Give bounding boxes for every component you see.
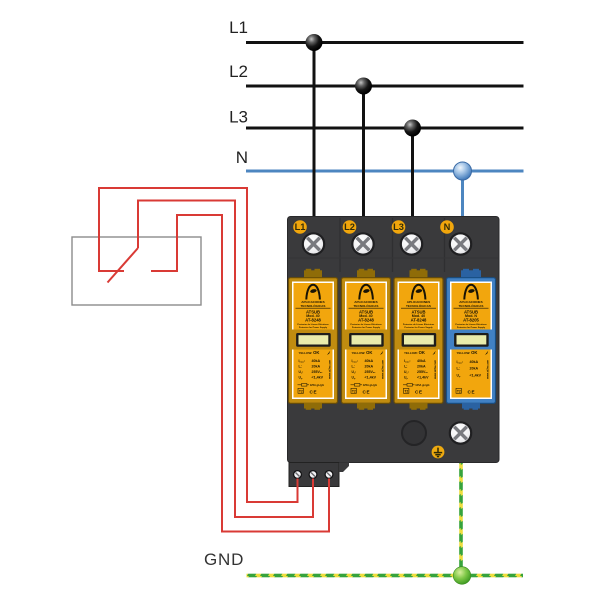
svg-text:20kA: 20kA <box>470 366 479 370</box>
svg-text:In:: In: <box>457 366 460 371</box>
terminal screw RC3 <box>325 471 333 479</box>
svg-text:L3: L3 <box>393 222 404 232</box>
badge L2 <box>343 220 357 234</box>
remote contact enclosure box <box>72 237 201 305</box>
terminal screw PE <box>450 422 471 443</box>
junction L3 <box>404 120 421 137</box>
wire L2 drop <box>362 86 365 220</box>
wire L1 bus <box>246 41 524 44</box>
earth badge <box>432 446 445 459</box>
svg-text:Protector de Líneas Eléctricas: Protector de Líneas Eléctricas <box>455 323 487 326</box>
maker logo arch <box>464 285 478 300</box>
svg-text:GND: GND <box>204 550 244 569</box>
terminal screw L3 <box>401 233 422 254</box>
switch blade <box>108 248 139 283</box>
svg-text:L1: L1 <box>295 222 306 232</box>
terminal block (remote contact) <box>289 463 349 487</box>
junction N <box>454 162 472 180</box>
svg-text:Protector for Power Supply: Protector for Power Supply <box>457 326 486 329</box>
wire L2 bus <box>246 85 524 88</box>
module top latch <box>461 270 481 278</box>
terminal screw N <box>450 233 471 254</box>
module front label <box>450 282 492 400</box>
terminal screw L1 <box>303 233 324 254</box>
svg-text:www.at3w.com: www.at3w.com <box>485 359 489 380</box>
terminal screw RC2 <box>309 471 317 479</box>
wire L3 drop <box>411 128 414 220</box>
svg-text:L2: L2 <box>229 62 248 81</box>
wire remote contact B (to RC2) <box>138 201 313 518</box>
terminal screw L2 <box>352 233 373 254</box>
earth wire vertical <box>459 462 463 577</box>
badge N <box>440 220 454 234</box>
SPD module 3 L3 AT-8248 <box>394 269 443 410</box>
svg-text:L2: L2 <box>344 222 355 232</box>
earth wire horizontal <box>247 574 524 578</box>
wire L3 bus <box>246 127 524 130</box>
wire N drop <box>461 171 464 220</box>
module cartridge body (N, blue) <box>447 278 496 404</box>
wire remote contact C (to RC3) <box>151 215 329 532</box>
svg-text:YELLOW: OK: YELLOW: OK <box>457 350 478 355</box>
svg-text:T2: T2 <box>457 390 461 394</box>
svg-text:CE: CE <box>468 389 475 394</box>
svg-text:N: N <box>236 148 248 167</box>
wire N bus <box>246 170 524 173</box>
svg-text:L3: L3 <box>229 108 248 127</box>
SPD module 1 L1 AT-8248 <box>289 269 338 410</box>
terminal screw RC1 <box>294 471 302 479</box>
svg-text:N: N <box>444 222 451 232</box>
svg-text:<1,4kV: <1,4kV <box>470 373 482 377</box>
earth node ball <box>453 567 471 585</box>
mounting hole <box>402 421 426 445</box>
junction L1 <box>306 34 323 51</box>
svg-text:40kA: 40kA <box>470 360 479 364</box>
wire L1 drop <box>313 43 316 221</box>
SPD device body <box>288 217 500 463</box>
module bottom latch <box>462 403 480 409</box>
badge L1 <box>293 220 307 234</box>
SPD module 2 L2 AT-8248 <box>342 269 391 410</box>
SPD module 4 N AT-8205 <box>447 269 496 410</box>
wire remote contact A (to RC1) <box>99 188 298 502</box>
svg-text:TECNOLÓGICAS: TECNOLÓGICAS <box>459 303 484 308</box>
svg-text:AT-8205: AT-8205 <box>463 317 479 322</box>
status indicator window <box>448 330 494 350</box>
svg-text:L1: L1 <box>229 18 248 37</box>
junction L2 <box>355 78 372 95</box>
badge L3 <box>392 220 406 234</box>
